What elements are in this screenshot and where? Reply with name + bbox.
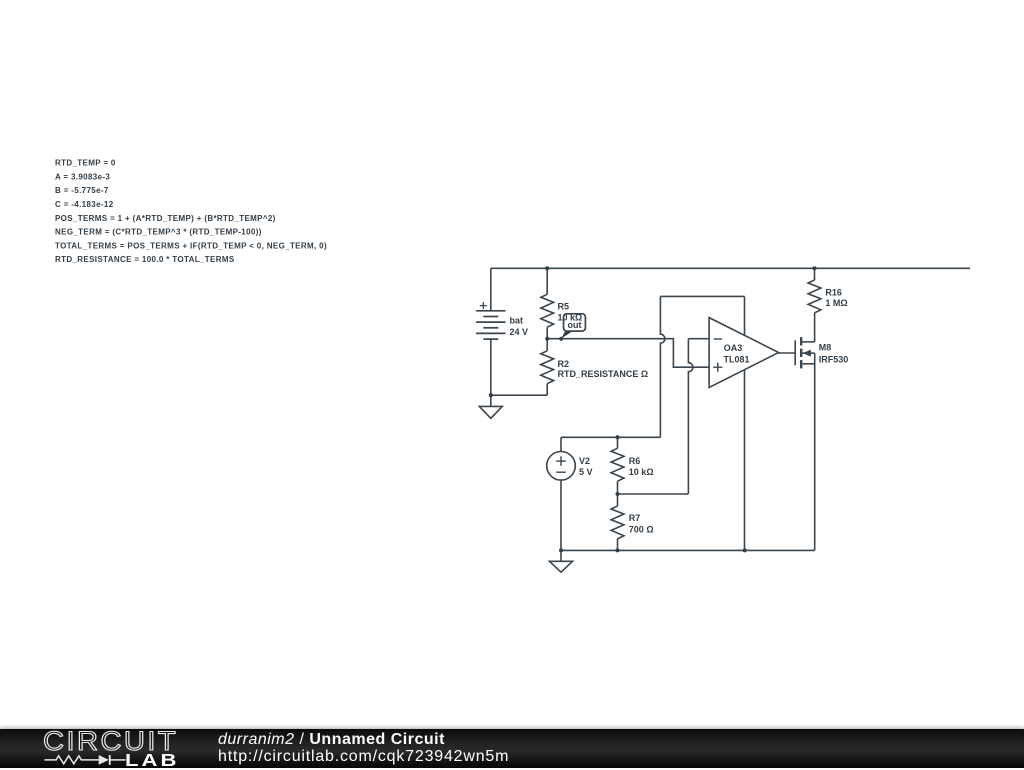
wire V2 top lead (560, 437, 562, 451)
wire V2 bottom lead (560, 480, 562, 550)
svg-text:TL081: TL081 (724, 355, 750, 365)
wire R5 top lead (546, 268, 548, 294)
svg-text:R16: R16 (825, 287, 842, 297)
wire supply vertical with hop over out wire (660, 296, 665, 437)
svg-text:TOTAL_TERMS = POS_TERMS + IF(R: TOTAL_TERMS = POS_TERMS + IF(RTD_TEMP < … (55, 241, 327, 250)
voltage source V2 (547, 452, 576, 481)
wire battery top lead (490, 268, 492, 311)
svg-text:A = 3.9083e-3: A = 3.9083e-3 (55, 172, 110, 181)
svg-text:M8: M8 (819, 342, 832, 352)
svg-text:RTD_TEMP = 0: RTD_TEMP = 0 (55, 159, 116, 168)
svg-text:IRF530: IRF530 (819, 355, 849, 365)
wire R6 top lead (617, 437, 619, 448)
svg-text:R2: R2 (558, 359, 570, 369)
wire minus input from divider (688, 338, 709, 340)
resistor R5 (541, 294, 554, 327)
svg-text:1 MΩ: 1 MΩ (825, 298, 847, 308)
svg-text:24 V: 24 V (510, 327, 529, 337)
svg-text:RTD_RESISTANCE = 100.0 * TOTAL: RTD_RESISTANCE = 100.0 * TOTAL_TERMS (55, 255, 235, 264)
battery bat plates (476, 311, 505, 339)
wire R5 bottom lead (546, 327, 548, 339)
wire divider vertical with hop over plus wire (688, 339, 693, 494)
resistor R2 (541, 351, 554, 384)
logo squiggle resistor-diode (0, 729, 200, 768)
svg-text:OA3: OA3 (724, 343, 743, 353)
svg-text:700 Ω: 700 Ω (629, 524, 654, 534)
wire R7 bottom lead (617, 539, 619, 551)
wire op-amp V- stub to ground rail (744, 366, 746, 550)
wire R16 bottom lead to drain (814, 313, 816, 342)
wire op-amp V+ stub (744, 296, 746, 340)
svg-text:NEG_TERM = (C*RTD_TEMP^3 * (RT: NEG_TERM = (C*RTD_TEMP^3 * (RTD_TEMP-100… (55, 228, 262, 237)
svg-text:V2: V2 (579, 456, 590, 466)
svg-text:C = -4.183e-12: C = -4.183e-12 (55, 200, 114, 209)
svg-text:R7: R7 (629, 513, 641, 523)
resistor R6 (611, 448, 624, 481)
junction dots (489, 266, 817, 552)
wire out node to op-amp plus input (547, 339, 709, 368)
wire top rail (491, 267, 970, 269)
transistor M8 NMOS (795, 337, 814, 368)
wire supply top horizontal to op-amp V+ (660, 295, 744, 297)
wire V2 plus rail to R6 top (561, 436, 660, 438)
wire bottom ground rail (561, 549, 815, 551)
svg-text:10 kΩ: 10 kΩ (558, 312, 583, 322)
wire R6 bottom lead (617, 481, 619, 494)
wire R2 top lead (546, 339, 548, 351)
wire R7 top lead (617, 494, 619, 506)
wire battery to R2 bottom (491, 394, 547, 396)
wire battery bottom lead (490, 339, 492, 395)
resistor R16 (808, 280, 821, 313)
wire op-amp output to gate (779, 352, 796, 354)
battery plus mark (480, 302, 487, 309)
bar title (218, 732, 445, 749)
wire R6/R7 mid to minus vertical (618, 493, 689, 495)
ground (V2) (550, 550, 573, 572)
svg-text:bat: bat (510, 316, 524, 326)
svg-text:R6: R6 (629, 456, 641, 466)
svg-text:RTD_RESISTANCE Ω: RTD_RESISTANCE Ω (558, 369, 649, 379)
svg-text:POS_TERMS = 1 + (A*RTD_TEMP) +: POS_TERMS = 1 + (A*RTD_TEMP) + (B*RTD_TE… (55, 214, 276, 223)
node out flag (561, 314, 585, 339)
svg-text:5 V: 5 V (579, 467, 593, 477)
svg-text:10 kΩ: 10 kΩ (629, 467, 654, 477)
op-amp OA3 triangle (709, 318, 779, 388)
svg-text:R5: R5 (558, 302, 570, 312)
ground (battery) (479, 395, 502, 418)
CircuitLab logo wordmark (43, 728, 178, 755)
wire R16 top lead (814, 268, 816, 280)
svg-text:B = -5.775e-7: B = -5.775e-7 (55, 186, 109, 195)
wire MOSFET source down (814, 353, 816, 550)
resistor R7 (611, 506, 624, 539)
